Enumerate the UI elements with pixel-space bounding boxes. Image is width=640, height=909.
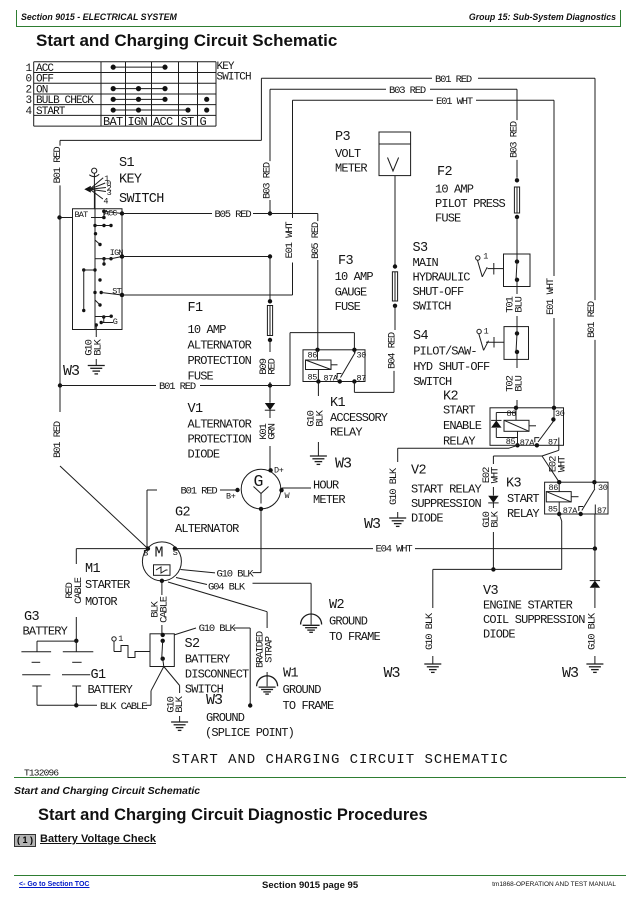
svg-text:E01 WHT: E01 WHT	[545, 278, 557, 315]
svg-text:4: 4	[103, 197, 108, 207]
svg-text:10 AMP: 10 AMP	[188, 323, 227, 337]
svg-text:SWITCH: SWITCH	[413, 300, 452, 314]
svg-text:E04 WHT: E04 WHT	[376, 544, 413, 556]
svg-text:K2: K2	[443, 390, 458, 405]
svg-text:BLK: BLK	[92, 338, 104, 355]
svg-text:TO FRAME: TO FRAME	[283, 699, 334, 713]
svg-text:W: W	[285, 491, 291, 501]
svg-text:PILOT/SAW-: PILOT/SAW-	[413, 345, 477, 359]
svg-text:W3: W3	[364, 516, 381, 533]
svg-text:W2: W2	[329, 598, 344, 613]
svg-text:RELAY: RELAY	[507, 507, 539, 521]
svg-text:MAIN: MAIN	[413, 256, 439, 270]
svg-text:ALTERNATOR: ALTERNATOR	[175, 522, 239, 536]
svg-text:BLK: BLK	[314, 409, 326, 426]
svg-text:SHUT-OFF: SHUT-OFF	[413, 285, 464, 299]
svg-text:SWITCH: SWITCH	[217, 72, 252, 84]
svg-text:BATTERY: BATTERY	[23, 625, 68, 639]
svg-text:W3: W3	[562, 665, 579, 682]
svg-text:G2: G2	[175, 506, 190, 521]
svg-text:DIODE: DIODE	[188, 448, 220, 462]
svg-text:ALTERNATOR: ALTERNATOR	[188, 418, 252, 432]
svg-text:SWITCH: SWITCH	[119, 192, 164, 207]
svg-text:F1: F1	[188, 301, 203, 316]
svg-text:V1: V1	[188, 402, 203, 417]
svg-text:DISCONNECT: DISCONNECT	[185, 668, 249, 682]
svg-text:BLU: BLU	[513, 375, 525, 391]
svg-text:(SPLICE POINT): (SPLICE POINT)	[205, 726, 294, 740]
svg-text:87A: 87A	[324, 374, 339, 384]
svg-text:B03 RED: B03 RED	[509, 121, 521, 158]
svg-text:G: G	[200, 115, 207, 129]
svg-text:DIODE: DIODE	[411, 512, 443, 526]
svg-text:G10 BLK: G10 BLK	[424, 612, 436, 650]
svg-text:1: 1	[484, 327, 489, 337]
svg-text:87A: 87A	[520, 438, 535, 448]
svg-text:CABLE: CABLE	[73, 577, 85, 604]
svg-text:GROUND: GROUND	[206, 711, 245, 725]
svg-text:B01 RED: B01 RED	[52, 147, 64, 184]
svg-text:START: START	[36, 106, 66, 118]
svg-text:1: 1	[118, 634, 123, 644]
svg-text:B01 RED: B01 RED	[52, 421, 64, 458]
svg-text:WHT: WHT	[556, 456, 568, 472]
svg-text:87: 87	[597, 506, 607, 516]
svg-text:W3: W3	[63, 363, 80, 380]
svg-text:TO FRAME: TO FRAME	[329, 630, 380, 644]
svg-text:M1: M1	[85, 562, 100, 577]
svg-text:85: 85	[308, 373, 318, 383]
svg-text:ACC: ACC	[104, 208, 118, 218]
svg-text:SUPPRESSION: SUPPRESSION	[411, 497, 482, 511]
svg-text:30: 30	[357, 351, 367, 361]
svg-text:M: M	[155, 545, 164, 562]
svg-text:G10 BLK: G10 BLK	[388, 467, 400, 505]
svg-text:GROUND: GROUND	[283, 683, 322, 697]
svg-text:ACC: ACC	[153, 115, 173, 129]
svg-text:G10 BLK: G10 BLK	[586, 612, 598, 650]
svg-text:RED: RED	[267, 358, 279, 374]
svg-text:30: 30	[555, 409, 565, 419]
svg-text:W1: W1	[283, 667, 298, 682]
svg-text:BATTERY: BATTERY	[88, 683, 133, 697]
svg-text:KEY: KEY	[119, 173, 142, 188]
svg-text:10 AMP: 10 AMP	[435, 183, 474, 197]
svg-text:G: G	[113, 317, 118, 327]
svg-text:B04 RED: B04 RED	[386, 332, 398, 369]
svg-text:S4: S4	[413, 329, 428, 344]
svg-text:B03 RED: B03 RED	[389, 85, 426, 97]
svg-text:FUSE: FUSE	[335, 300, 361, 314]
svg-text:BAT: BAT	[75, 210, 89, 220]
svg-text:START AND CHARGING CIRCUIT SCH: START AND CHARGING CIRCUIT SCHEMATIC	[172, 752, 509, 768]
svg-text:RELAY: RELAY	[330, 426, 362, 440]
svg-text:PROTECTION: PROTECTION	[188, 433, 252, 447]
svg-text:SWITCH: SWITCH	[413, 375, 452, 389]
svg-text:G3: G3	[24, 610, 39, 625]
svg-text:85: 85	[548, 505, 558, 515]
svg-text:F2: F2	[437, 165, 452, 180]
svg-text:V3: V3	[483, 584, 498, 599]
svg-text:B01 RED: B01 RED	[181, 485, 218, 497]
svg-text:ACCESSORY: ACCESSORY	[330, 411, 388, 425]
svg-text:S1: S1	[119, 156, 134, 171]
svg-text:B03 RED: B03 RED	[262, 162, 274, 199]
svg-text:CABLE: CABLE	[158, 596, 170, 623]
svg-text:ENABLE: ENABLE	[443, 419, 482, 433]
svg-text:METER: METER	[313, 493, 345, 507]
svg-text:HOUR: HOUR	[313, 479, 339, 493]
svg-text:GAUGE: GAUGE	[335, 286, 367, 300]
svg-text:GROUND: GROUND	[329, 615, 368, 629]
svg-text:E01 WHT: E01 WHT	[284, 222, 296, 259]
svg-text:E01 WHT: E01 WHT	[436, 96, 473, 108]
svg-text:1: 1	[483, 251, 488, 261]
svg-text:BATTERY: BATTERY	[185, 653, 230, 667]
svg-text:BLK: BLK	[490, 510, 502, 527]
svg-text:METER: METER	[335, 162, 367, 176]
svg-text:4: 4	[26, 106, 33, 118]
svg-text:P3: P3	[335, 130, 350, 145]
svg-text:G10 BLK: G10 BLK	[217, 569, 255, 581]
svg-text:RELAY: RELAY	[443, 435, 475, 449]
svg-text:START RELAY: START RELAY	[411, 483, 482, 497]
svg-text:START: START	[443, 404, 475, 418]
svg-text:87: 87	[357, 374, 367, 384]
svg-text:B01 RED: B01 RED	[586, 301, 598, 338]
svg-text:VOLT: VOLT	[335, 147, 361, 161]
svg-text:G04 BLK: G04 BLK	[208, 582, 246, 594]
svg-text:PROTECTION: PROTECTION	[188, 354, 252, 368]
svg-text:ENGINE STARTER: ENGINE STARTER	[483, 599, 573, 613]
svg-text:W3: W3	[384, 665, 401, 682]
svg-text:COIL SUPPRESSION: COIL SUPPRESSION	[483, 613, 585, 627]
svg-text:86: 86	[507, 409, 517, 419]
svg-text:WHT: WHT	[490, 467, 502, 483]
svg-text:S3: S3	[413, 241, 428, 256]
svg-text:B01 RED: B01 RED	[159, 381, 196, 393]
svg-text:ALTERNATOR: ALTERNATOR	[188, 339, 252, 353]
svg-text:FUSE: FUSE	[435, 212, 461, 226]
svg-text:F3: F3	[338, 254, 353, 269]
svg-text:W3: W3	[206, 692, 223, 709]
svg-text:87: 87	[548, 438, 558, 448]
svg-text:86: 86	[308, 351, 318, 361]
svg-text:10 AMP: 10 AMP	[335, 270, 374, 284]
svg-text:ST: ST	[181, 115, 195, 129]
svg-text:V2: V2	[411, 464, 426, 479]
svg-text:87A: 87A	[563, 506, 578, 516]
svg-text:B05 RED: B05 RED	[310, 222, 322, 259]
svg-text:BAT: BAT	[103, 115, 123, 129]
svg-text:PILOT PRESS: PILOT PRESS	[435, 197, 506, 211]
svg-text:STRAP: STRAP	[263, 636, 275, 663]
svg-text:G1: G1	[91, 668, 106, 683]
svg-text:B05 RED: B05 RED	[215, 209, 252, 221]
svg-text:STARTER: STARTER	[85, 578, 130, 592]
svg-text:D+: D+	[274, 466, 284, 476]
svg-text:HYDRAULIC: HYDRAULIC	[413, 271, 471, 285]
svg-text:BLK: BLK	[174, 695, 186, 712]
svg-text:W3: W3	[335, 456, 352, 473]
svg-text:DIODE: DIODE	[483, 628, 515, 642]
svg-text:BLK CABLE: BLK CABLE	[100, 701, 147, 713]
svg-text:GRN: GRN	[267, 423, 279, 439]
svg-text:K1: K1	[330, 396, 345, 411]
svg-text:IGN: IGN	[128, 115, 148, 129]
svg-text:S2: S2	[185, 637, 200, 652]
svg-text:85: 85	[506, 437, 516, 447]
svg-text:B01 RED: B01 RED	[435, 74, 472, 86]
svg-text:G10 BLK: G10 BLK	[199, 623, 237, 635]
svg-text:START: START	[507, 492, 539, 506]
svg-text:30: 30	[598, 483, 608, 493]
svg-text:BLU: BLU	[513, 296, 525, 312]
svg-text:HYD SHUT-OFF: HYD SHUT-OFF	[413, 360, 490, 374]
svg-text:MOTOR: MOTOR	[85, 595, 117, 609]
svg-text:K3: K3	[506, 477, 521, 492]
svg-text:B+: B+	[226, 492, 236, 502]
